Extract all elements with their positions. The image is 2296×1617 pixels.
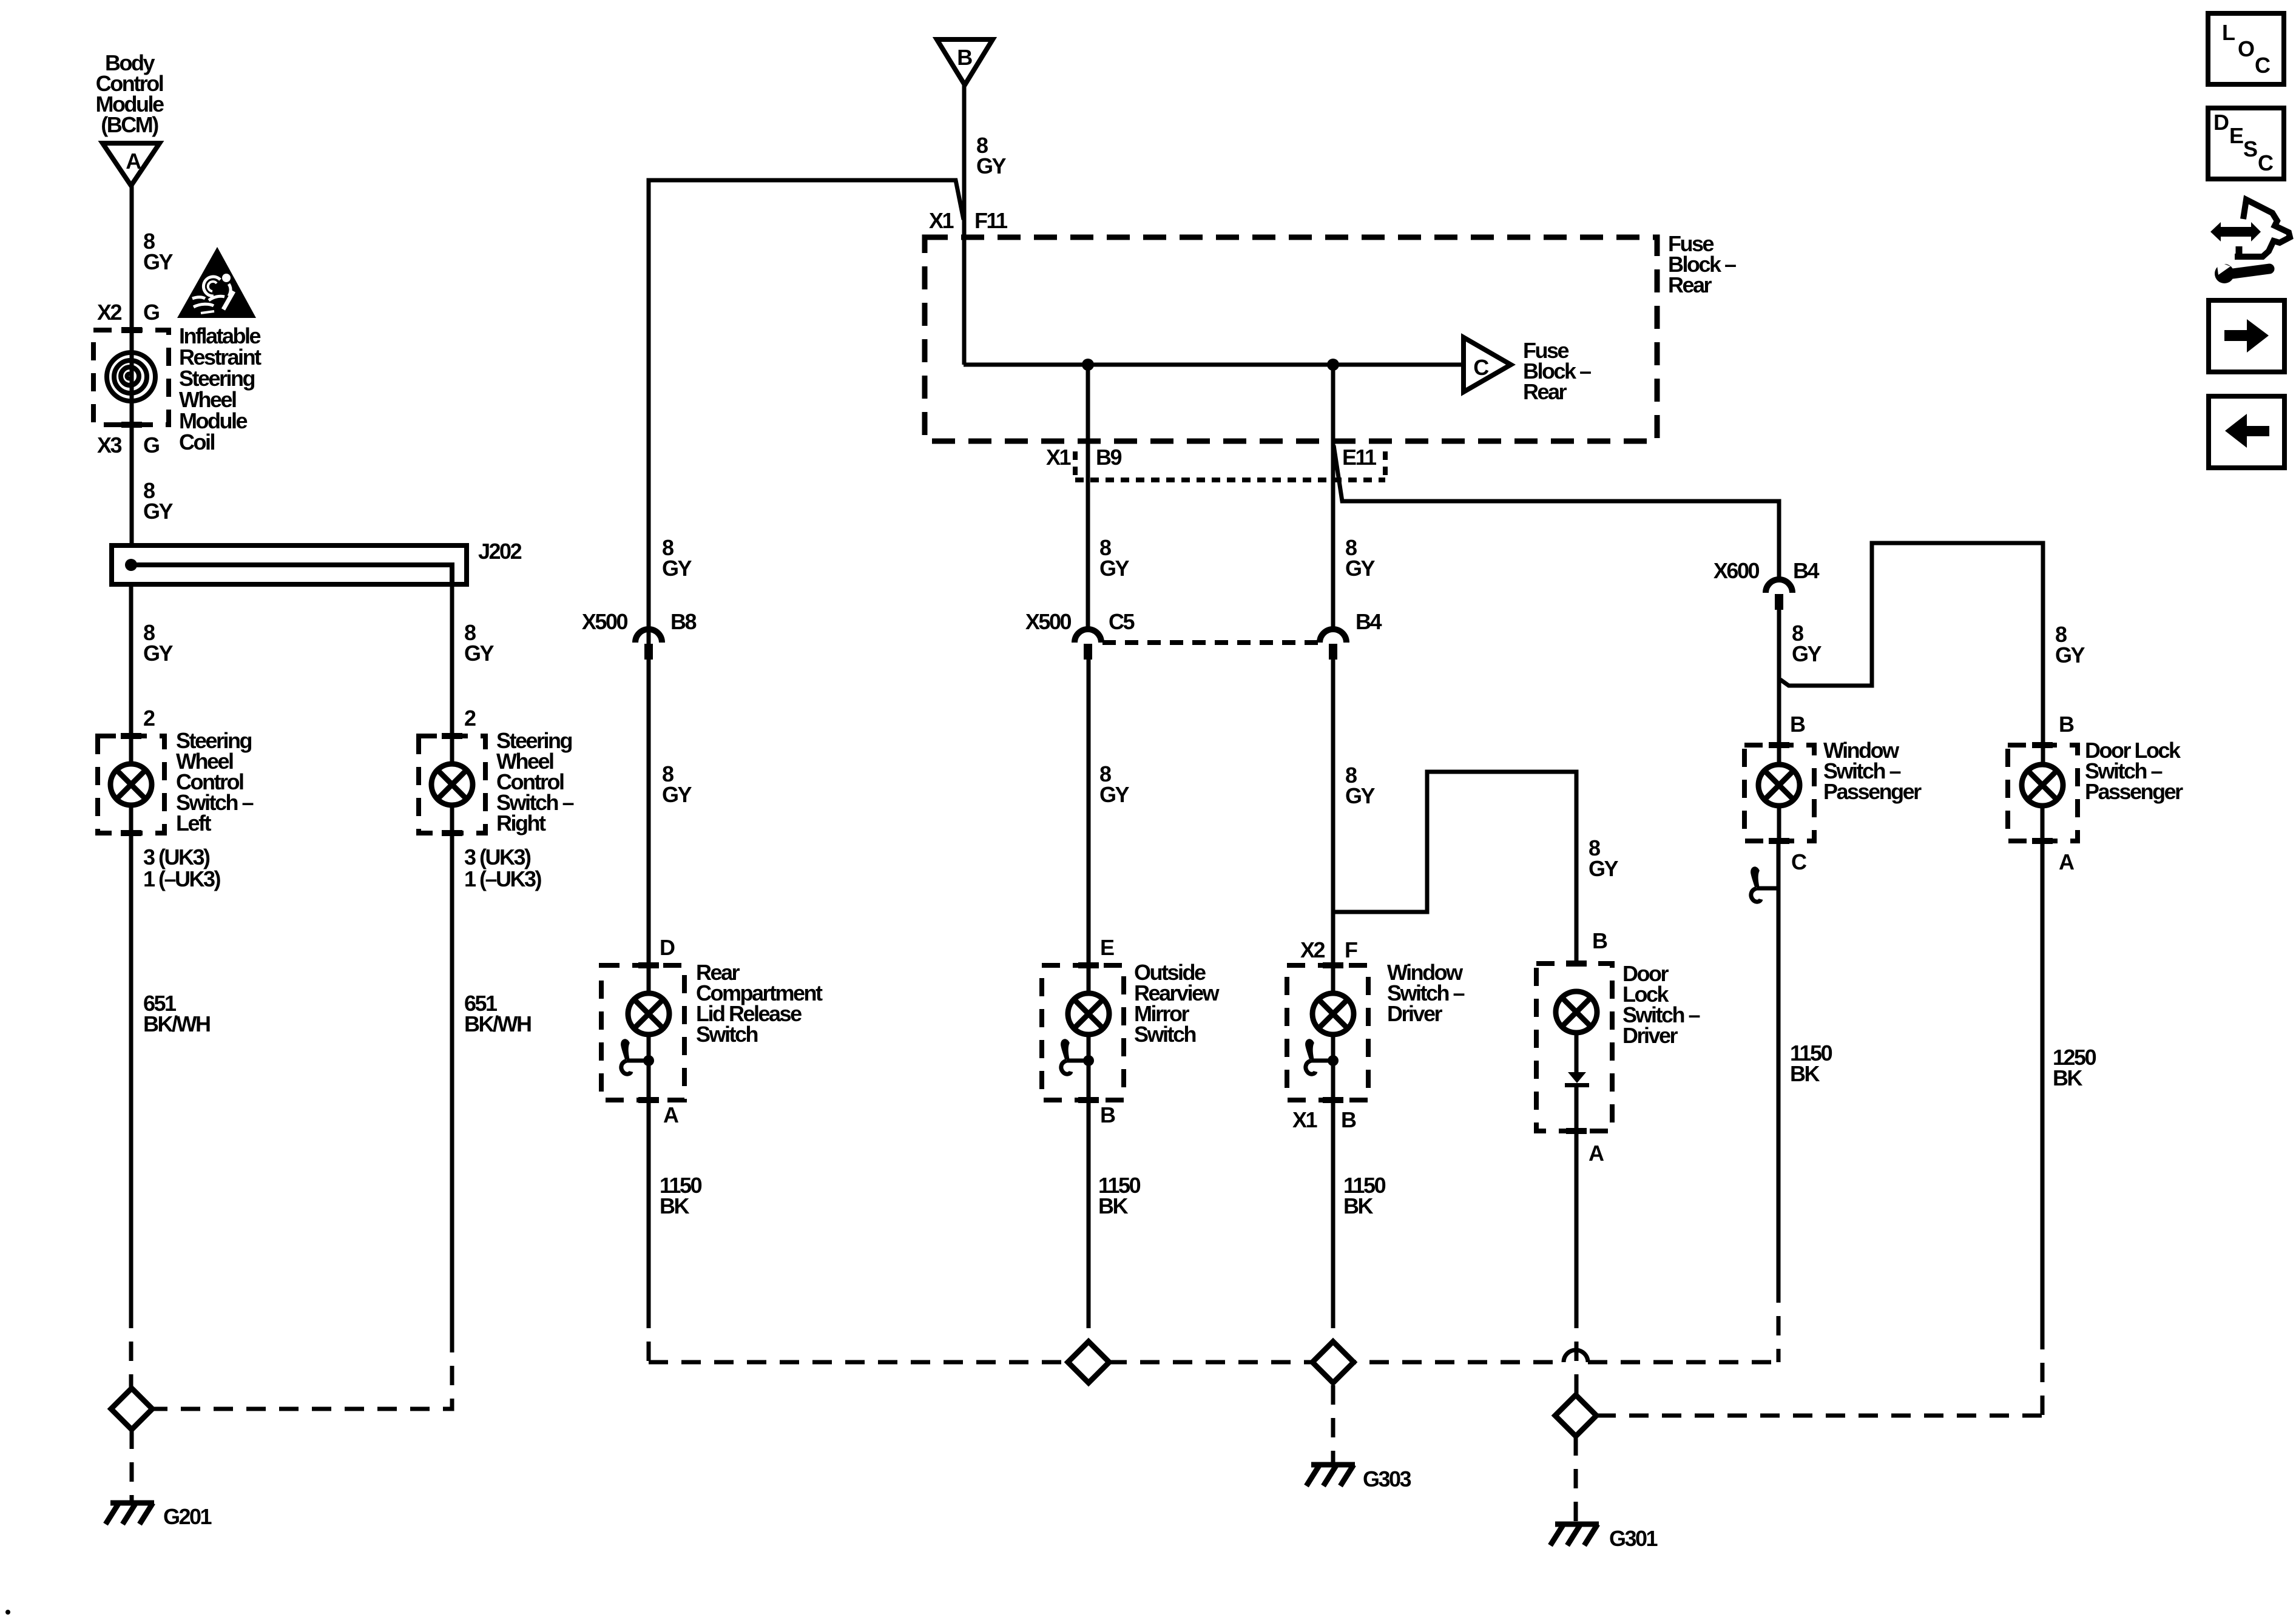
svg-text:E: E (1100, 935, 1114, 960)
svg-text:B: B (1592, 928, 1607, 953)
wire diode to pin A (1575, 1087, 1579, 1131)
dashed wire window passenger to ground bus (1777, 1283, 1781, 1362)
dashed wire mirror switch to splice diamond (1087, 1309, 1091, 1342)
svg-text:A: A (1589, 1141, 1604, 1166)
dashed wire door lock passenger to G301 splice (2041, 1330, 2045, 1416)
mirror switch lamp (1068, 993, 1109, 1035)
ground G303 (1306, 1465, 1355, 1486)
door lock driver switch lamp (1556, 991, 1597, 1033)
dashed wire door lock driver to G301 splice diamond (1575, 1309, 1579, 1395)
svg-text:3 (UK3): 3 (UK3) (464, 845, 531, 869)
svg-text:X1: X1 (1046, 445, 1072, 470)
wire: door lock driver to G301 splice (1575, 1131, 1579, 1309)
wire: fuse block E11 down to connector B4 (1331, 365, 1335, 629)
svg-text:G: G (143, 433, 159, 457)
svg-text:S: S (2243, 137, 2257, 161)
svg-text:3 (UK3): 3 (UK3) (143, 845, 210, 869)
bus hop over G301 leg (1564, 1350, 1588, 1362)
wire: B down into fuse block to bus (962, 85, 967, 365)
Door Lock Switch - Passenger box (2008, 745, 2078, 841)
svg-text:2: 2 (143, 706, 155, 731)
svg-text:X2: X2 (1300, 937, 1325, 962)
dashed wire splice to ground (130, 1430, 134, 1501)
in-line connector X500 B8 (635, 629, 662, 643)
svg-text:F: F (1345, 937, 1357, 962)
svg-text:A: A (2059, 849, 2075, 874)
dashed wire rear lid to ground bus (647, 1309, 651, 1362)
svg-text:B8: B8 (670, 609, 696, 634)
svg-text:C: C (2255, 53, 2271, 78)
svg-text:G201: G201 (163, 1504, 212, 1529)
ground bus dashed wire (1150 BK net) (649, 1360, 1564, 1365)
left switch lamp (110, 764, 152, 805)
svg-text:1 (–UK3): 1 (–UK3) (143, 866, 221, 891)
wire: top feed to rear compartment lid release switch column (649, 180, 964, 993)
dashed wire G301 splice to door lock passenger (1596, 1414, 2042, 1418)
fused feed bus inside fuse block (964, 363, 1464, 367)
Fuse Block - Rear outline (925, 237, 1657, 441)
dashed wire to G201 splice (left) (129, 1309, 133, 1388)
wire: J202 to right steering switch (450, 584, 454, 764)
svg-text:B: B (1100, 1102, 1115, 1127)
LOC icon box (2208, 13, 2284, 84)
wire: window driver switch to splice (1331, 1100, 1335, 1309)
dashed wire G301 splice to ground (1574, 1436, 1578, 1522)
svg-text:B4: B4 (1356, 609, 1382, 634)
svg-text:B9: B9 (1096, 445, 1121, 470)
coil symbol (clockspring) (107, 353, 155, 401)
wire: window passenger switch down (1777, 806, 1781, 841)
wire lamp to switch contact (1331, 1035, 1335, 1100)
Steering Wheel Control Switch - Right box (419, 736, 485, 833)
dashed wire to G201 splice (right) (152, 1333, 452, 1409)
wire: switch C to splice net (1777, 841, 1781, 1283)
branch wire window driver to door lock driver (1333, 772, 1576, 964)
ground G201 (106, 1503, 154, 1524)
splice diamond at G201 net (111, 1388, 152, 1430)
window driver switch contact lever (1306, 1041, 1333, 1074)
splice diamond (mirror leg) (1068, 1342, 1109, 1383)
wire: B8 to rear lid release switch (647, 660, 651, 993)
Steering Wheel Control Switch - Left box (98, 736, 164, 833)
wire: door lock passenger switch down (2041, 806, 2045, 841)
wire: mirror switch to splice (1087, 1100, 1091, 1309)
wire: J202 to left steering switch (129, 584, 133, 764)
SIR airbag caution icon (177, 247, 256, 318)
fuse block bottom connector dotted edges (1073, 451, 1078, 478)
rear lid switch contact lever (621, 1041, 649, 1074)
mirror switch contact lever (1061, 1041, 1089, 1074)
svg-text:A: A (663, 1102, 679, 1127)
svg-text:G303: G303 (1363, 1467, 1411, 1491)
splice diamond G301 (1555, 1395, 1596, 1436)
splice diamond G303 (1312, 1342, 1354, 1383)
connector service icon (double arrow, shell, wrench) (2210, 200, 2290, 283)
connector triangle B (feed) (937, 39, 993, 85)
Inflatable Restraint Steering Wheel Module Coil box (93, 330, 169, 425)
connector X500 dashed tie C5 to B4 (1102, 640, 1319, 645)
wire: fuse block B9 down to connector C5 (1086, 365, 1090, 629)
svg-text:B: B (957, 45, 972, 70)
branch wire X600 to door lock switch passenger (1780, 543, 2043, 765)
tick at coil box top (121, 327, 142, 333)
svg-text:D: D (660, 935, 675, 960)
connector triangle C (to Fuse Block - Rear) (1464, 337, 1511, 392)
Outside Rearview Mirror Switch box (1042, 965, 1124, 1100)
window driver switch lamp (1312, 993, 1354, 1035)
svg-text:L: L (2222, 20, 2235, 45)
wire lamp to switch contact (647, 1035, 651, 1100)
window passenger switch lamp (1758, 765, 1800, 806)
Rear Compartment Lid Release Switch box (601, 965, 684, 1100)
svg-text:E11: E11 (1342, 445, 1377, 470)
svg-text:A: A (126, 149, 141, 174)
splice pack J202 (112, 545, 467, 584)
svg-text:X500: X500 (582, 609, 628, 634)
right switch lamp (431, 764, 473, 805)
wire: pin A to G301 net (2041, 841, 2045, 1330)
wire: C5 to mirror switch (1087, 660, 1091, 993)
svg-text:E: E (2229, 123, 2243, 148)
wire: B4 to window switch driver (1331, 660, 1335, 993)
DESC icon box (2208, 108, 2284, 179)
wire: rear lid switch to splice net (647, 1100, 651, 1309)
wire: X600 to window switch passenger (1777, 610, 1781, 765)
door lock passenger switch lamp (2022, 765, 2063, 806)
Window Switch - Passenger box (1744, 745, 1814, 841)
svg-text:1 (–UK3): 1 (–UK3) (464, 866, 542, 891)
svg-text:G301: G301 (1609, 1526, 1658, 1551)
junction dot B9 leg (1082, 359, 1094, 371)
svg-text:C: C (1791, 849, 1807, 874)
wire: left switch down (129, 805, 133, 1309)
ground G301 (1550, 1524, 1599, 1545)
page dot (5, 1610, 10, 1615)
svg-text:X600: X600 (1714, 558, 1760, 583)
wire: BCM A down to J202 through coil (130, 186, 134, 545)
svg-text:X2: X2 (97, 300, 122, 325)
in-line connector B4 (1320, 629, 1346, 643)
svg-text:B: B (2059, 712, 2074, 737)
ground bus dashed wire (right of hop) (1588, 1360, 1778, 1365)
svg-text:C: C (1473, 355, 1489, 380)
diode in door lock switch driver (1568, 1072, 1586, 1083)
svg-text:G: G (143, 300, 159, 325)
window passenger switch contact lever (1751, 869, 1778, 902)
svg-text:X500: X500 (1025, 609, 1072, 634)
in-line connector X600 B4 (1766, 579, 1792, 593)
tick at coil box bottom (121, 422, 142, 428)
connector triangle A (to BCM) (103, 143, 160, 186)
forward arrow icon box (2209, 300, 2284, 372)
rear lid switch lamp (628, 993, 669, 1035)
svg-text:B: B (1790, 712, 1805, 737)
wire lamp to switch contact (1087, 1035, 1091, 1100)
junction dot E11 leg (1327, 359, 1339, 371)
back arrow icon box (2209, 396, 2284, 468)
svg-text:X3: X3 (97, 433, 122, 457)
svg-text:F11: F11 (974, 208, 1008, 233)
svg-text:C5: C5 (1109, 609, 1135, 634)
svg-text:B: B (1341, 1107, 1356, 1132)
svg-text:X1: X1 (1292, 1107, 1318, 1132)
svg-text:B4: B4 (1793, 558, 1819, 583)
in-line connector X500 C5 (1075, 629, 1101, 643)
Door Lock Switch - Driver box (1536, 964, 1612, 1131)
svg-text:X1: X1 (929, 208, 954, 233)
svg-text:C: C (2258, 150, 2274, 175)
wire: right switch down (450, 805, 454, 1333)
dashed wire G303 splice to ground (1331, 1385, 1335, 1462)
wire lamp to diode (1575, 1033, 1579, 1072)
svg-text:O: O (2238, 36, 2254, 61)
Window Switch - Driver box (1287, 965, 1368, 1100)
dashed wire window driver to G303 splice (1331, 1309, 1335, 1342)
svg-text:J202: J202 (478, 539, 522, 564)
svg-text:2: 2 (464, 706, 476, 731)
wire branch E11 to X600 (1334, 445, 1779, 579)
svg-text:D: D (2213, 110, 2229, 135)
